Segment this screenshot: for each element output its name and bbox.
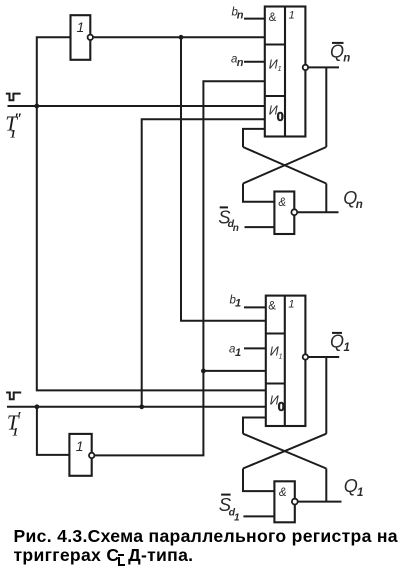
U1 row divider 2 [265,95,285,97]
label Q̄n overbar [332,42,344,44]
inverter DD1 output bubble [88,35,93,40]
wire: top block I0 input 2 from T1' bus [142,119,265,407]
wire: Qn output [297,211,338,213]
svg-text:&: & [269,12,277,24]
wire: T1' down to bottom inverter input [37,407,70,455]
nand gate G1 (top) box [274,192,294,235]
pulse symbol T1" [6,94,21,101]
wire: latch cross diagonal 2 (bottom) [243,434,326,469]
svg-text:1: 1 [288,299,294,311]
node: junction T1' with bottom inverter branch [35,404,40,409]
svg-text:n: n [356,199,363,211]
svg-text:&: & [278,197,286,209]
wire: from inverter output junction down to bottom block & input 2 [181,37,266,320]
caption C-D symbol L [118,557,125,567]
svg-text:Q: Q [344,476,358,496]
wire: S̄d1 stub into G2 [243,515,274,517]
wire: T1" branch to top inverter input, down left bus, into bottom block I0 input 1 [37,37,266,390]
svg-text:1: 1 [344,342,350,354]
svg-text:1: 1 [289,10,295,22]
svg-text:Q: Q [330,332,344,352]
svg-text:&: & [279,487,287,499]
svg-text:0: 0 [278,399,285,414]
wire: Q̄1 feedback down to latch cross [325,357,327,434]
wire: cross right leg to Qn line [325,184,327,213]
node: junction T1' with top I0 bus [139,404,144,409]
caption C-D symbol dash [118,554,124,556]
U2 column divider [284,296,286,426]
svg-text:1: 1 [10,127,16,141]
wire: top inverter output to top block & input 2 [93,36,265,38]
inverter DD1 (top) box [71,15,91,60]
svg-text:1: 1 [279,353,283,360]
wire: latch feedback into U2 I0 input 3 [243,418,266,434]
wire: cross left leg into gate G1 [243,184,274,202]
wire: Q1 output [298,501,342,503]
wire: cross left leg into gate G2 [243,469,274,492]
svg-text:1: 1 [76,438,84,454]
svg-text:1: 1 [235,347,241,359]
wire: a1 stub [244,347,266,349]
node: junction on I1 bus at bottom block branch [201,369,206,374]
G1 output bubble [291,209,297,215]
label Q̄1 overbar [332,332,342,334]
svg-text:Q: Q [330,42,344,62]
caption [14,527,408,564]
wire: Q̄n output stub [308,66,339,68]
wire: S̄dn stub into G1 [245,226,275,228]
U1 row divider 1 [265,43,285,45]
inverter DD2 (bottom) box [69,434,91,476]
svg-text:&: & [268,300,276,312]
wire: latch cross diagonal 1 (bottom) [243,434,326,469]
label S̄d1 overbar [221,494,231,496]
wire: latch cross diagonal 2 (top) [243,147,326,184]
node: junction T1" line with left bus [34,104,39,109]
node: junction on inverter output [179,35,184,40]
wire: latch cross diagonal 1 (top) [243,147,326,184]
svg-text:″: ″ [14,111,22,127]
wire: shared bus to I1 inputs of both blocks and bottom inverter output [95,81,265,455]
U2 output bubble [303,354,308,359]
wire: an stub into I1 input 1 [244,61,265,63]
wire: T1' horizontal line into bottom block I0 input 2 [7,406,266,408]
inverter DD2 output bubble [89,453,94,458]
svg-text:n: n [233,223,239,234]
svg-text:И: И [269,57,278,71]
svg-text:1: 1 [234,513,240,524]
nand gate G2 (bottom) box [274,481,294,522]
U1 column divider [284,7,286,137]
svg-text:n: n [237,9,244,21]
wire: T1" horizontal line into top block I0 input 1 [8,105,265,107]
svg-text:И: И [270,344,279,358]
flip-flop U1 (top) outer box [265,7,306,137]
label S̄dn overbar [220,206,228,208]
wire: branch to bottom block I1 input 2 [203,370,265,372]
wire: latch feedback into I0 input 3 [243,129,265,147]
wire: cross right leg to Q1 line [325,469,327,502]
wire: b1 stub [244,306,266,308]
wire: Q̄1 output stub [308,356,339,358]
svg-text:1: 1 [278,66,282,73]
svg-text:n: n [237,57,244,69]
U2 row divider 1 [266,332,285,334]
wire: bn stub into & input 1 [244,18,265,20]
U1 output bubble [303,65,308,70]
flip-flop U2 (bottom) outer box [266,296,306,426]
svg-text:′: ′ [17,409,21,425]
svg-text:1: 1 [12,424,18,438]
svg-text:n: n [343,53,350,65]
pulse symbol T1' [6,393,21,400]
wire: Q̄n feedback down to latch cross [325,67,327,147]
G2 output bubble [292,499,298,505]
svg-text:1: 1 [235,298,241,310]
svg-text:1: 1 [357,487,363,499]
svg-text:0: 0 [277,109,284,124]
svg-text:1: 1 [77,19,85,35]
U2 row divider 2 [266,382,285,384]
